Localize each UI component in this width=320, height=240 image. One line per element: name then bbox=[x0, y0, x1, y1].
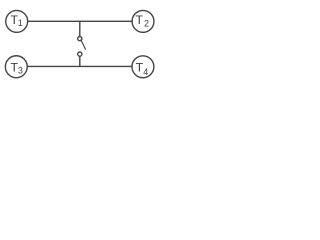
label T2 bbox=[136, 13, 149, 29]
svg-text:T: T bbox=[136, 13, 144, 27]
terminal T3 bbox=[5, 56, 27, 78]
label T4 bbox=[136, 61, 149, 78]
label T3 bbox=[10, 61, 22, 76]
svg-text:3: 3 bbox=[18, 66, 23, 76]
wire: top wire junction down to switch upper contact bbox=[79, 21, 81, 36]
wire top: T1 to T2 bbox=[28, 20, 133, 22]
terminal T4 bbox=[132, 56, 154, 78]
switch S1 upper contact bbox=[78, 37, 82, 41]
terminal T1 bbox=[6, 10, 28, 32]
switch S1 lower contact bbox=[78, 52, 82, 56]
terminal T2 bbox=[132, 10, 154, 32]
switch S1 blade (open) bbox=[81, 40, 86, 49]
label T1 bbox=[10, 13, 22, 28]
svg-text:2: 2 bbox=[144, 19, 149, 29]
svg-text:1: 1 bbox=[18, 18, 23, 28]
wire bottom: T3 to T4 bbox=[27, 65, 132, 67]
wire: switch lower contact down to bottom wire bbox=[79, 56, 81, 66]
svg-text:4: 4 bbox=[143, 67, 148, 77]
